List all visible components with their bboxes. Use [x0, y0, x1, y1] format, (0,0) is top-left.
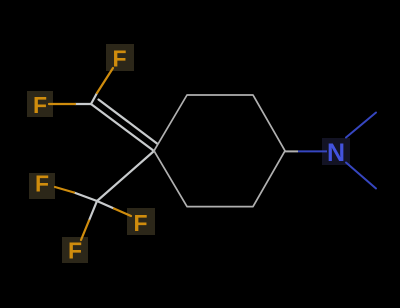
- svg-text:N: N: [327, 139, 345, 167]
- wire: bond C1-F1 (up-right), carbon half: [91, 93, 97, 104]
- svg-text:F: F: [68, 237, 82, 263]
- benzene ring hexagon: [154, 95, 285, 207]
- wire: bond C3-F3 fluorine half: [55, 187, 74, 193]
- wire: bond C3-F5 fluorine half: [81, 221, 89, 241]
- wire: bond ring-N nitrogen half: [298, 150, 327, 152]
- svg-text:F: F: [112, 46, 126, 72]
- wire: bond C1-F2 (horizontal), fluorine half: [49, 103, 75, 105]
- wire: bond N-CH3 upper: [346, 113, 376, 138]
- svg-text:F: F: [35, 171, 49, 197]
- wire: bond C1-F1 (up-right), fluorine half: [97, 68, 113, 93]
- node halo artifacts: [27, 44, 155, 263]
- wire: bond C2-C3: [97, 151, 154, 201]
- wire: bond C3-F4 carbon half: [97, 201, 114, 209]
- svg-text:F: F: [33, 92, 47, 118]
- wire: double bond C1=C2 main line: [91, 104, 154, 151]
- wire: bond N-CH3 lower: [346, 163, 376, 189]
- wire: bond C3-F3 carbon half: [74, 193, 97, 202]
- wire: double bond C1=C2 second line: [99, 100, 158, 144]
- wire: bond C3-F5 carbon half: [89, 201, 97, 221]
- wire: bond C1-F2 (horizontal), carbon half: [49, 68, 157, 240]
- svg-text:F: F: [133, 210, 147, 236]
- wire: bond C3-F4 fluorine half: [114, 209, 131, 217]
- wire: bond ring-N carbon half: [285, 150, 298, 152]
